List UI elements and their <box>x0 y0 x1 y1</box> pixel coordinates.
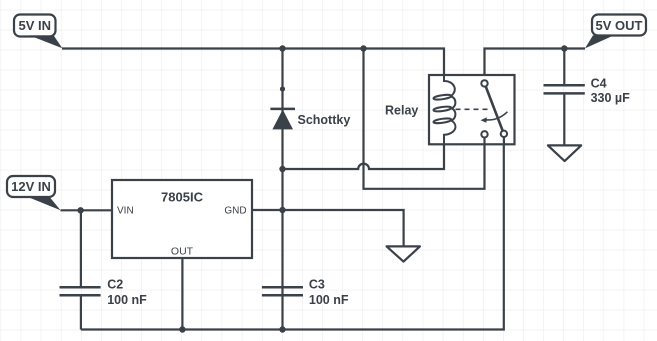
wire 5V IN rail top-left <box>62 49 444 76</box>
svg-text:GND: GND <box>224 205 246 216</box>
node junction 363 on 5V rail <box>360 45 366 51</box>
relay K1 <box>385 75 515 144</box>
relay pin stubs <box>485 137 504 144</box>
wire relay switch common to 5V OUT rail <box>485 49 586 81</box>
wire anode node horizontal with hop over x=363 <box>283 135 445 169</box>
ground below C4 <box>548 145 581 161</box>
svg-text:5V IN: 5V IN <box>19 18 52 33</box>
capacitor C3 <box>262 278 349 308</box>
relay dashed link <box>456 108 488 110</box>
svg-text:C4: C4 <box>591 77 607 91</box>
wire C2 to bottom rail <box>80 294 82 329</box>
node junction GND wire x diode branch <box>279 207 285 213</box>
svg-text:100 nF: 100 nF <box>107 293 147 307</box>
svg-text:OUT: OUT <box>171 246 194 258</box>
svg-text:VIN: VIN <box>117 205 134 216</box>
svg-text:Relay: Relay <box>385 104 418 118</box>
ground below GND pin <box>387 246 420 261</box>
op-amp U1 7805IC regulator box <box>112 180 252 258</box>
relay coil <box>433 75 455 144</box>
relay pin circle common <box>481 80 487 86</box>
node junction OUT on bottom rail <box>179 326 185 332</box>
wire OUT pin down <box>181 258 183 330</box>
node junction anode wire x diode branch <box>279 166 285 172</box>
node junction 12V/C2 <box>77 207 83 213</box>
wire bottom rail <box>81 137 504 330</box>
diode D1 Schottky <box>270 86 350 129</box>
capacitor C2 <box>60 278 148 308</box>
node 5V IN flag <box>14 15 62 49</box>
capacitor C4 <box>544 77 631 106</box>
svg-text:7805IC: 7805IC <box>161 189 204 204</box>
node junction diode-top on 5V rail <box>279 45 285 51</box>
relay pin circle NC <box>481 131 487 137</box>
wire diode branch vertical <box>281 49 283 330</box>
svg-text:Schottky: Schottky <box>298 113 351 127</box>
relay pin circle NO <box>501 131 507 137</box>
node junction C3 on bottom rail <box>279 326 285 332</box>
wire C4 branch top <box>563 49 565 86</box>
svg-text:C2: C2 <box>107 278 123 292</box>
wire C4 to ground <box>563 93 565 145</box>
wire C2 branch <box>80 210 82 286</box>
relay switch arrow <box>486 112 507 120</box>
wire 12V IN to VIN <box>61 209 113 211</box>
svg-text:5V OUT: 5V OUT <box>596 18 643 33</box>
svg-text:330 µF: 330 µF <box>591 91 631 105</box>
svg-text:C3: C3 <box>309 278 325 292</box>
wire GND pin to ground <box>252 210 404 246</box>
node junction C4 on 5V OUT rail <box>561 45 567 51</box>
svg-text:12V IN: 12V IN <box>11 179 51 194</box>
relay switch blade <box>486 86 503 130</box>
node 5V OUT flag <box>585 15 646 49</box>
node 12V IN flag <box>7 176 61 210</box>
svg-text:100 nF: 100 nF <box>309 293 349 307</box>
wire 363 branch from 5V rail down to relay NC contact <box>364 49 485 189</box>
